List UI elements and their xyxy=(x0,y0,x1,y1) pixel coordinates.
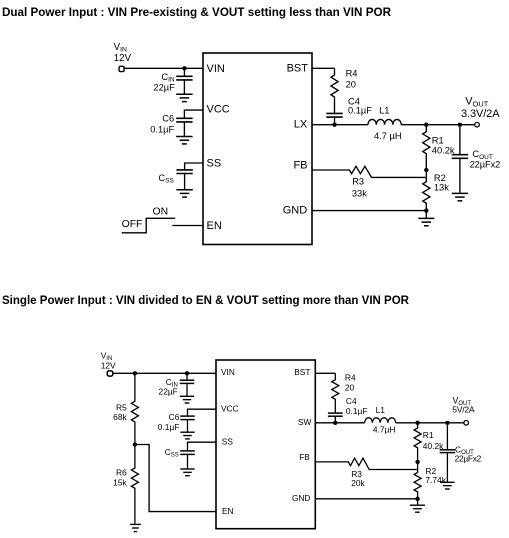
node C4/LX junction xyxy=(332,123,336,127)
op IC U2 (buck converter, bottom circuit) xyxy=(216,360,315,529)
svg-text:7.74k: 7.74k xyxy=(425,475,446,485)
wire SS to CSS (bottom) xyxy=(188,442,217,450)
resistor R1 (top) xyxy=(423,125,430,170)
wire GND (bottom) xyxy=(315,498,417,500)
wire VIN input rail xyxy=(124,67,203,69)
wire EN xyxy=(172,225,203,227)
capacitor CSS xyxy=(176,169,192,171)
svg-text:R4: R4 xyxy=(345,373,356,383)
svg-text:L1: L1 xyxy=(376,405,386,415)
op IC U1 (buck converter, top circuit) xyxy=(203,53,312,245)
svg-text:4.7µH: 4.7µH xyxy=(373,424,396,434)
capacitor CIN xyxy=(183,68,185,75)
capacitor C6 (bottom) xyxy=(180,415,195,417)
svg-text:Dual Power Input : VIN Pre-exi: Dual Power Input : VIN Pre-existing & VO… xyxy=(2,5,391,19)
resistor R3 (top, on FB wire) xyxy=(312,166,426,177)
node FB/R2 junction (bottom) xyxy=(415,460,419,464)
svg-text:FB: FB xyxy=(299,452,310,462)
wire SW rail left xyxy=(315,422,364,424)
svg-text:SS: SS xyxy=(207,158,222,170)
svg-text:Single Power Input : VIN divid: Single Power Input : VIN divided to EN &… xyxy=(2,293,409,307)
wire BST to R4 xyxy=(312,67,335,69)
node LX/R1 junction xyxy=(424,123,428,127)
ground (COUT top) xyxy=(452,192,468,194)
on/off step waveform xyxy=(122,218,176,233)
svg-text:C6: C6 xyxy=(169,412,180,422)
svg-text:33k: 33k xyxy=(352,188,367,198)
inductor L1 (bottom) xyxy=(365,418,396,423)
terminal VOUT (top) xyxy=(475,122,480,127)
svg-text:5V/2A: 5V/2A xyxy=(452,405,475,415)
svg-text:22µFx2: 22µFx2 xyxy=(455,453,482,463)
ground (C6) xyxy=(176,136,192,138)
svg-text:13k: 13k xyxy=(434,183,449,193)
svg-text:L1: L1 xyxy=(379,105,389,115)
resistor R3 (bottom, on FB wire) xyxy=(315,458,417,469)
svg-text:C4: C4 xyxy=(346,396,357,406)
ground (CSS) xyxy=(176,189,192,191)
svg-text:R1: R1 xyxy=(423,430,434,440)
svg-text:BST: BST xyxy=(294,367,310,377)
wire EN tap to U2 xyxy=(135,445,216,512)
capacitor C4 (top) xyxy=(326,112,342,114)
node FB/R2 junction xyxy=(424,168,428,172)
node VIN/CIN junction xyxy=(182,66,186,70)
svg-text:0.1µF: 0.1µF xyxy=(150,125,174,135)
svg-text:CSS: CSS xyxy=(158,173,174,185)
svg-text:20: 20 xyxy=(345,382,355,392)
resistor R1 (bottom) xyxy=(414,423,421,462)
svg-text:FB: FB xyxy=(293,159,307,171)
svg-text:LX: LX xyxy=(294,118,308,130)
svg-text:0.1µF: 0.1µF xyxy=(158,422,180,432)
ground (GND pin bottom) xyxy=(417,499,419,505)
svg-text:EN: EN xyxy=(207,220,222,232)
wire VIN rail (bottom) xyxy=(113,372,216,374)
svg-text:12V: 12V xyxy=(114,53,132,64)
svg-text:20k: 20k xyxy=(351,478,365,488)
svg-text:OFF: OFF xyxy=(122,219,143,230)
node VOUT/COUT junction xyxy=(458,123,462,127)
node EN divider tap xyxy=(133,442,137,446)
svg-text:VIN: VIN xyxy=(221,367,235,377)
capacitor C6 xyxy=(176,117,192,119)
ground (CSS bottom) xyxy=(180,468,194,470)
svg-text:68k: 68k xyxy=(113,412,127,422)
svg-text:GND: GND xyxy=(292,493,310,503)
node SW/R1 junction xyxy=(415,421,419,425)
svg-text:BST: BST xyxy=(287,63,309,75)
svg-text:VIN: VIN xyxy=(114,42,127,54)
capacitor CIN (bottom) xyxy=(186,373,188,379)
svg-text:SW: SW xyxy=(298,417,312,427)
node C4/SW junction xyxy=(333,421,337,425)
capacitor CSS (bottom) xyxy=(180,450,195,452)
node VOUT/COUT junction (bottom) xyxy=(446,421,450,425)
resistor R5 xyxy=(131,373,138,444)
capacitor C4 (bottom) xyxy=(328,412,343,414)
svg-text:0.1µF: 0.1µF xyxy=(346,406,368,416)
wire LX rail right xyxy=(401,124,475,126)
node GND junction (top) xyxy=(424,208,428,212)
svg-text:R6: R6 xyxy=(116,468,127,478)
svg-text:EN: EN xyxy=(222,506,234,516)
resistor R2 (bottom) xyxy=(414,462,421,499)
svg-text:R5: R5 xyxy=(116,402,127,412)
resistor R6 xyxy=(131,445,138,524)
svg-text:SS: SS xyxy=(222,437,234,447)
svg-text:VCC: VCC xyxy=(207,104,230,116)
svg-text:R2: R2 xyxy=(434,173,446,183)
svg-text:ON: ON xyxy=(153,206,169,217)
svg-text:22µF: 22µF xyxy=(153,83,175,93)
node VIN/CIN junction (bottom) xyxy=(185,371,189,375)
wire VCC to C6 (bottom) xyxy=(188,409,217,415)
ground (GND pin top) xyxy=(425,211,427,219)
svg-text:12V: 12V xyxy=(101,360,116,370)
terminal VOUT (bottom) xyxy=(464,421,469,426)
svg-text:VCC: VCC xyxy=(221,404,239,414)
svg-text:15k: 15k xyxy=(113,478,127,488)
capacitor COUT (top) xyxy=(459,127,461,154)
ground (CIN bottom) xyxy=(180,395,194,397)
svg-text:R4: R4 xyxy=(346,69,358,79)
wire VCC to C6 xyxy=(184,110,203,118)
ground (CIN) xyxy=(176,93,192,95)
ground (C6 bottom) xyxy=(180,431,194,433)
svg-text:22µF: 22µF xyxy=(159,386,178,396)
svg-text:3.3V/2A: 3.3V/2A xyxy=(461,108,500,120)
wire BST to R4 (bottom) xyxy=(315,372,335,374)
svg-text:4.7 µH: 4.7 µH xyxy=(374,131,402,141)
svg-text:CSS: CSS xyxy=(165,447,179,459)
resistor R4 (top) xyxy=(331,68,338,112)
terminal VIN (bottom) xyxy=(107,371,113,376)
svg-text:R1: R1 xyxy=(432,135,444,145)
svg-text:R3: R3 xyxy=(352,176,364,186)
svg-text:VOUT: VOUT xyxy=(465,96,488,109)
svg-text:22µFx2: 22µFx2 xyxy=(470,160,501,170)
wire SW rail right xyxy=(396,422,464,424)
resistor R4 (bottom) xyxy=(332,373,339,412)
svg-text:VIN: VIN xyxy=(207,63,225,75)
svg-text:GND: GND xyxy=(283,205,308,217)
svg-text:C6: C6 xyxy=(162,114,174,124)
ground (R6) xyxy=(130,523,141,525)
node VIN/R5 junction xyxy=(133,371,137,375)
node GND junction (bottom) xyxy=(415,497,419,501)
svg-text:0.1µF: 0.1µF xyxy=(348,105,372,115)
wire LX rail left xyxy=(312,124,368,126)
svg-text:20: 20 xyxy=(346,79,356,89)
terminal VIN (top) xyxy=(119,66,124,71)
resistor R2 (top) xyxy=(423,170,430,211)
capacitor COUT (bottom) xyxy=(446,425,448,450)
svg-text:40.2k: 40.2k xyxy=(432,146,455,156)
wire SS to CSS xyxy=(185,163,203,169)
ground (COUT bottom) xyxy=(440,481,454,483)
inductor L1 (top) xyxy=(368,119,401,124)
wire GND (top) xyxy=(312,210,426,212)
